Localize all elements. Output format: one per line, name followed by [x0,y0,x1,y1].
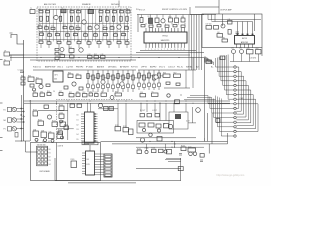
wire mid v6 [117,70,119,92]
component C30 row5 [39,41,43,43]
wire top edge stub [118,1,120,8]
wire tuner hbus3 [39,31,129,33]
wire mid band top [33,69,136,71]
pin U6 L2 [82,155,86,157]
wire u6 top [89,145,91,151]
svg-text:R112: R112 [123,126,127,128]
container box audio [137,121,174,134]
pin U3 top 4 [252,22,254,36]
wire bundle vL2 [211,98,213,114]
wire row v1 [174,141,176,147]
wire ladder v13 [84,9,86,41]
wire nested L 2 [236,72,241,112]
component R13 row3 [63,26,67,28]
svg-text:C2: C2 [46,9,48,11]
component C42 row6 [69,49,74,53]
resistor R15 [99,16,101,21]
resistor R152 [216,119,220,123]
pin U1 bottom 12 [180,43,182,48]
component R77 [149,25,153,27]
pin U1 bottom 8 [167,43,169,48]
wire ladder v5 [56,9,58,41]
resistor R101 [38,121,44,125]
pin U6 L6 [82,165,86,167]
wire ladder v8 [66,9,68,41]
svg-text:R64: R64 [151,76,154,78]
svg-text:PLL IC: PLL IC [177,67,184,69]
wire ladder v18 [102,9,104,41]
component T5 brow [152,93,159,96]
svg-text:C84: C84 [239,47,242,49]
wire bc v2 [159,103,161,120]
wire c h2 [57,128,74,130]
svg-text:R101 C5: R101 C5 [33,67,42,69]
group box audio out [169,112,188,129]
svg-text:R60: R60 [68,72,71,74]
resistor R64 [158,73,161,78]
capacitor C95 [167,94,170,97]
pin U6 L8 [82,170,86,172]
component R3 row1 [70,11,74,13]
pin U5 R9 [94,133,98,135]
resistor R52b [21,82,25,85]
audio dashed box [57,100,134,141]
wire rb v1 [207,113,209,141]
component R37 row5 [107,42,111,44]
svg-text:C18: C18 [110,25,113,27]
wire bundle vU2 [218,57,220,76]
svg-text:C14: C14 [70,25,73,27]
node kbb1 [149,141,150,142]
resistor R113 [129,129,134,135]
capacitor C57 [122,85,125,89]
resistor R86 [220,56,225,60]
svg-text:R13: R13 [63,25,66,27]
transistor Q6 [60,48,64,52]
pin U5 R5 [94,123,98,125]
svg-text:T1: T1 [30,8,32,10]
svg-text:R27: R27 [104,32,107,34]
wire bc v4 [173,103,175,112]
component R15 row3 [76,27,80,29]
component R29 row4 [122,33,126,35]
resistor R73 [175,18,179,23]
resistor R104 [59,106,64,110]
IC U6 body [86,151,95,175]
capacitor C141 [157,129,160,132]
svg-text:R131: R131 [152,148,156,150]
svg-text:C38: C38 [117,40,120,42]
capacitor C56 [117,84,120,88]
svg-text:OSC 1: OSC 1 [57,67,64,69]
node bus dot 7 [179,57,180,58]
resistor R84 [256,50,262,54]
connector CN1 pin 6 [234,89,236,91]
component R27 row4 [104,33,108,35]
wire mid bus 3 [30,59,136,61]
pin U6 L3 [82,157,86,159]
wire tuner v2-6 [98,44,100,48]
svg-text:C94: C94 [140,92,143,94]
resistor R105 [59,114,64,118]
svg-text:R19: R19 [125,25,128,27]
capacitor C98 [51,139,54,142]
svg-text:R29: R29 [122,32,125,34]
pin U1 top 11 [177,28,179,32]
resistor R83 [247,50,254,54]
node bus dot 1 [59,57,60,58]
svg-text:C71: C71 [181,16,184,18]
wire mid bus 1 [10,54,190,56]
wire midr v2 [148,70,150,90]
resistor R51 [92,75,94,80]
pin U6 R3 [95,158,105,160]
svg-text:C4: C4 [77,9,79,11]
resistor R61 [76,75,81,79]
component R45 row6b [94,56,99,59]
pin U6 R4 [95,161,105,163]
wire bundle vU3 [220,57,222,81]
component R78 [165,25,169,27]
capacitor C71 [181,18,185,22]
resistor R102 [52,122,58,126]
IC U4A [33,131,39,137]
resistor R51 [36,79,42,84]
wire fanfeed v2 [193,15,195,71]
capacitor C60 [138,83,141,87]
connector CN1 pin 11 [234,112,236,114]
pin U3 bottom 2 [240,44,242,48]
svg-text:R107: R107 [64,124,68,126]
svg-text:AM/FM SW: AM/FM SW [45,66,55,69]
svg-text:R23: R23 [66,32,69,34]
resistor Rbus [175,100,180,104]
transistor Q1 [54,15,58,19]
component C34 row5 [77,41,81,43]
wire J3 leads [17,128,25,130]
pin U1 top 3 [151,28,153,32]
resistor R81 [217,34,223,38]
node bus dot 0 [41,57,42,58]
pin U6 L4 [82,160,86,162]
wire bundle vU4 [222,56,224,85]
capacitor C81 [236,31,240,33]
svg-text:R84: R84 [256,48,259,50]
transistor Q9 [120,82,124,86]
resistor R70 [140,18,143,23]
transistor Q8 [101,80,105,84]
resistor R56 [117,74,119,79]
pin U5 R6 [94,125,98,127]
wire rb v5 [208,144,210,154]
wire u1 link 5 [178,24,180,25]
wire nested L 1 [236,67,239,108]
wire under U1 b [136,52,204,54]
svg-text:HA11225: HA11225 [161,39,170,42]
wire bc v0a [140,103,142,112]
svg-text:OUTPUT AMP: OUTPUT AMP [220,8,232,11]
wire lc bus [38,110,68,112]
resistor R13 [70,16,72,21]
capacitor C131 [164,150,167,153]
svg-text:R102: R102 [52,120,56,122]
wire mid v0 [87,70,89,92]
edge tick 2 [0,102,3,104]
wire u1 stub 4 [169,15,171,18]
wire bundle vU6 [225,55,227,95]
component C36 row5 [97,41,101,43]
svg-text:R92: R92 [83,92,86,94]
wire row tail2 [165,159,181,161]
wire ladder v9 [70,9,72,41]
wire stair top 0 [204,57,206,60]
pin U3 top 3 [247,22,249,36]
component R1 row1 [39,11,43,13]
wire tuner v2-5 [88,44,90,48]
wire U3 feed h1 [208,19,261,21]
capacitor C142 [175,114,181,119]
capacitor C150 [200,159,203,161]
svg-text:R25: R25 [84,32,87,34]
svg-text:CF1: CF1 [54,75,57,77]
wire lower feed 1 [187,97,212,99]
component R19 row3 [125,27,129,29]
IC U4C [49,133,55,139]
wire stair top 2 [204,59,209,62]
wire kb bus1 [101,140,228,142]
antenna ANT1 [11,35,24,45]
svg-text:HT64: HT64 [162,36,168,38]
capacitor C62 [64,86,68,89]
component T4 brow [101,93,107,96]
wire caps row bus [230,61,260,63]
svg-text:C12: C12 [51,26,54,28]
capacitor C64 [158,83,161,87]
wire bottom mid h [136,168,181,170]
pin U1 bottom 2 [148,43,150,48]
pin U1 bottom 10 [174,43,176,48]
svg-text:R35: R35 [87,40,90,42]
resistor R63 [153,75,156,80]
pin U5 L12 [81,140,85,142]
wire feed bus [190,14,216,16]
component C44 row6b [88,56,93,59]
svg-text:R33: R33 [67,40,70,42]
pin U5 R2 [94,115,98,117]
pin U5 L11 [81,138,85,140]
wire midr v0 [138,70,140,90]
svg-text:L OUT: L OUT [152,110,157,112]
wire u1 stub 2 [156,15,158,18]
svg-text:D3: D3 [77,129,79,131]
capacitor C97 [44,139,47,142]
capacitor C133 [189,152,193,156]
pin U5 L9 [81,133,85,135]
svg-text:C.B: C.B [228,19,231,21]
resistor R134 [188,148,196,152]
capacitor C61 [143,84,146,88]
wire right v1 [222,14,224,26]
transistor Q10 [72,82,76,86]
wire bc v0b [146,103,148,112]
wire tuner hbus2 [39,23,129,25]
wire ladder v22 [116,9,118,41]
component C40 row6 [55,49,59,51]
wire tuner v2-1 [48,44,50,48]
pin U6 R1 [95,153,105,155]
pin U1 top 13 [183,28,185,32]
connector CN1 pin 15 [234,130,236,132]
connector CN1 pin 13 [234,121,236,123]
component C14 row3 [70,27,74,29]
connector CN1 pin 8 [234,98,236,100]
wire kb v [25,141,27,152]
wire terminal link [10,54,25,56]
component C20 row4 [40,33,44,35]
wire bundle vU7 [227,55,229,100]
wire top bus [38,8,130,10]
wire c v1 [117,103,119,127]
wire ladder v24 [123,9,125,41]
wire row tail [166,158,181,160]
IC U4B [41,132,47,138]
svg-text:R61: R61 [135,78,138,80]
wire bundle vL1 [209,97,211,109]
resistor R10 [40,16,42,21]
svg-text:D4: D4 [77,134,79,136]
pin U5 L5 [81,123,85,125]
component S2 sw [55,57,59,60]
svg-text:D5: D5 [77,139,79,141]
svg-text:X2: X2 [148,16,150,18]
svg-text:R77 1K: R77 1K [131,67,138,69]
pin U6 R7 [95,169,105,171]
svg-text:R72: R72 [169,16,172,18]
pin U6 R9 [95,174,105,176]
svg-text:R94: R94 [115,91,118,93]
svg-text:T2: T2 [61,8,63,10]
wire bottom bus2 [24,102,230,104]
pin U3 bottom 1 [236,44,238,48]
resistor R60 [68,74,73,78]
resistor R67 [174,74,181,77]
wire feed drop 1 [211,15,213,21]
wire ladder v0 [38,9,40,41]
wire ladder v2 [45,9,47,41]
wire nested L 4 [236,81,246,117]
component T3 row1 [88,10,94,14]
crystal Y1 [149,18,153,24]
wire midr v4 [158,70,160,90]
wire mid join [164,87,190,89]
svg-text:C34: C34 [77,40,80,42]
svg-text:C22: C22 [56,32,59,34]
resistor R55 [112,75,114,80]
capacitor C63 [79,87,83,90]
wire ladder v21 [113,9,115,41]
resistor R120 [71,161,77,168]
svg-text:C31 4.7: C31 4.7 [168,67,176,69]
svg-text:4.5V B: 4.5V B [58,146,64,148]
resistor R80 [206,26,212,30]
wire nested L 3 [236,76,243,114]
wire ladder v14 [88,9,90,41]
svg-text:K3: K3 [49,160,51,162]
component R33 row5 [67,42,71,44]
resistor R59 [132,75,134,80]
node kbb2 [171,141,172,142]
wire left bundle v2 [20,95,22,141]
svg-text:R91: R91 [69,92,72,94]
component S1 sw [55,53,59,56]
wire caps row stubs [233,54,235,62]
pin U1 top 4 [155,28,157,32]
wire fanfeed v1 [191,15,193,71]
connector CN1 pin 3 [234,75,236,77]
transistor Q25 [140,138,144,142]
wire lower feed 0 [190,95,208,97]
resistor R140 [139,123,145,127]
svg-text:K4: K4 [49,164,51,166]
connector CN1 pin 12 [234,116,236,118]
wire mid v2 [97,70,99,92]
svg-text:R101: R101 [38,119,42,121]
wire mid v8 [127,70,129,92]
wire bottom long2 [68,182,136,184]
wire rb v2 [211,113,213,144]
wire mid v7 [122,70,124,92]
resistor R96 [47,93,51,96]
edge tick 1 [0,59,3,61]
resistor R14 [77,16,79,21]
svg-text:AF MUTE: AF MUTE [120,66,129,69]
resistor R130 [137,150,142,153]
component C32 row5 [57,41,61,43]
component R21 row4 [48,34,52,36]
resistor R108 [58,131,63,134]
connector CN1 pin 1 [234,66,236,68]
svg-text:R70 C71: R70 C71 [139,9,145,11]
component C24 row4 [74,33,78,35]
resistor R110 [77,104,82,107]
component R35 row5 [87,42,91,44]
connector CN1 pin 9 [234,103,236,105]
wire u1 stub 3 [162,15,164,18]
pin U5 R3 [94,118,98,120]
pin U5 R8 [94,130,98,132]
transistor Q12 [161,19,165,23]
resistor R71 [155,18,159,23]
pin U1 top 12 [180,28,182,32]
wire ladder v19 [105,9,107,41]
svg-text:S2: S2 [42,141,44,143]
component C10 row3 [38,26,42,28]
transistor Q3 [95,25,99,29]
wire row link [136,146,204,148]
wire c v3 [67,103,69,140]
wire bundle vU1 [216,58,218,72]
svg-text:D2: D2 [77,124,79,126]
pin U5 R10 [94,135,98,137]
svg-text:KEY BOARD: KEY BOARD [40,170,51,173]
svg-text:FM RF2: FM RF2 [76,67,84,69]
capacitor C54 [107,84,110,88]
svg-text:K0: K0 [49,149,51,151]
svg-text:LPF B: LPF B [141,67,147,69]
component R92 brow [83,94,88,97]
wire bc v1 [154,103,156,113]
IC U5 label strip [82,142,98,145]
